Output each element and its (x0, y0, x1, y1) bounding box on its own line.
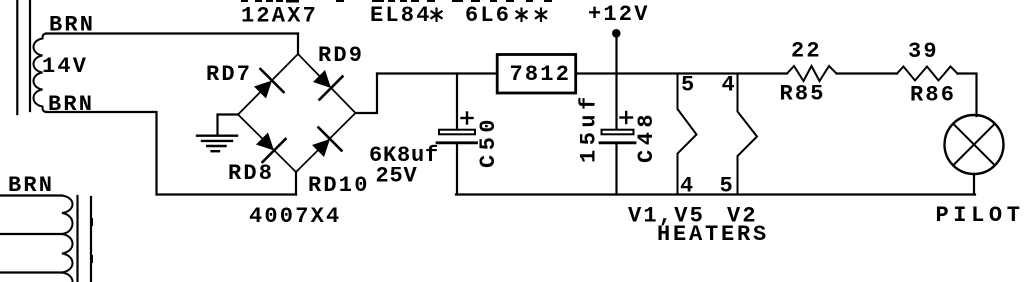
svg-text:R86: R86 (910, 83, 956, 108)
wire: +12V node down to C48 (615, 36, 617, 130)
asterisk marks (431, 8, 548, 23)
transformer T2 core tick marks (91, 219, 93, 225)
svg-text:C48: C48 (634, 110, 659, 163)
diode RD8 (256, 133, 286, 163)
C50 plus sign (462, 113, 473, 124)
svg-text:14V: 14V (42, 54, 88, 79)
wire: pilot lamp bottom stub (973, 174, 975, 195)
svg-text:RD8: RD8 (228, 161, 274, 186)
transformer T2 (lower) wire 1 (0, 194, 62, 196)
regulator U1 7812 box (497, 55, 576, 94)
transformer T1 secondary winding (14V) (34, 34, 48, 113)
svg-text:EL84: EL84 (370, 3, 432, 28)
C48 plus sign (621, 112, 633, 123)
wire: bridge top stub (297, 34, 299, 55)
partial text row (cropped at top) (241, 0, 552, 3)
wire: rail between R85 and R86 (837, 72, 898, 74)
svg-text:4: 4 (722, 73, 737, 98)
svg-text:+12V: +12V (588, 2, 650, 27)
svg-text:BRN: BRN (8, 173, 54, 198)
svg-text:HEATERS: HEATERS (657, 222, 769, 247)
svg-text:RD7: RD7 (206, 62, 252, 87)
transformer T2 core line 2 (90, 197, 92, 282)
wire: bridge left vertex to ground (218, 115, 239, 136)
svg-text:RD10: RD10 (308, 173, 370, 198)
svg-text:R85: R85 (780, 82, 826, 107)
transformer T2 primary winding (62, 196, 73, 282)
svg-text:7812: 7812 (510, 62, 572, 87)
svg-text:4007X4: 4007X4 (249, 204, 341, 229)
heater V2 (738, 74, 758, 195)
svg-text:C50: C50 (476, 115, 501, 168)
transformer T1 core line 1 (16, 0, 18, 114)
wire: winding top to bridge (46, 32, 298, 34)
svg-text:15uf: 15uf (577, 92, 602, 163)
svg-text:RD9: RD9 (318, 43, 364, 68)
transformer T1 core line 2 (29, 0, 31, 111)
svg-text:25V: 25V (376, 164, 418, 189)
svg-text:5: 5 (681, 73, 696, 98)
svg-text:BRN: BRN (49, 13, 95, 38)
svg-text:5: 5 (720, 174, 735, 199)
svg-text:12AX7: 12AX7 (241, 4, 318, 29)
svg-text:39: 39 (908, 39, 939, 64)
wire: +12V rail right of regulator (577, 72, 787, 74)
ground (197, 136, 237, 152)
capacitor C50 (456, 74, 458, 130)
diode RD10 (312, 128, 342, 158)
transformer T2 core line 1 (76, 196, 78, 282)
transformer T2 wire 3 (0, 271, 62, 273)
wire: rail to pilot lamp (958, 74, 977, 117)
diode RD7 (254, 69, 284, 99)
svg-text:BRN: BRN (48, 92, 94, 117)
wire: bridge bottom stub (295, 172, 297, 195)
diode RD9 (313, 70, 343, 100)
wire: bridge right vertex to rail (356, 74, 378, 114)
wire: +12V rail left segment (377, 72, 496, 74)
wire: winding bottom run (46, 112, 296, 195)
wire: bottom ground rail (456, 193, 975, 195)
node +12V dot (612, 29, 621, 38)
transformer T2 wire 2 (0, 233, 62, 235)
svg-text:4: 4 (680, 174, 695, 199)
bridge diamond edges (238, 54, 356, 172)
capacitor C48 (602, 130, 634, 135)
pilot lamp (945, 115, 1004, 174)
resistor R85 zigzag (787, 66, 837, 81)
resistor R86 zigzag (897, 67, 958, 81)
heater V1,V5 (678, 74, 697, 195)
svg-text:6L6: 6L6 (465, 3, 511, 28)
svg-text:22: 22 (791, 39, 822, 64)
svg-text:PILOT: PILOT (936, 203, 1025, 228)
